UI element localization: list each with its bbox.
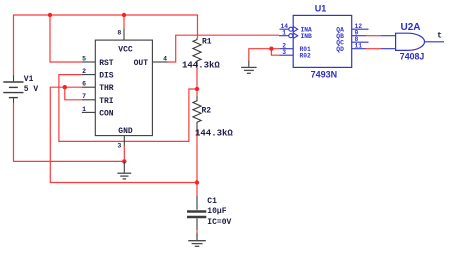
U1 inside labels bbox=[300, 26, 345, 59]
svg-text:R02: R02 bbox=[300, 52, 312, 59]
svg-text:DIS: DIS bbox=[99, 72, 114, 81]
capacitor C1 bbox=[187, 195, 206, 239]
svg-text:3: 3 bbox=[282, 49, 286, 56]
wire DIS to R1/R2 junction bbox=[59, 75, 197, 142]
svg-text:RST: RST bbox=[99, 59, 114, 68]
resistor R2 bbox=[193, 97, 201, 132]
svg-text:TRI: TRI bbox=[99, 97, 114, 106]
wire R1 bottom bbox=[196, 62, 198, 89]
svg-text:6: 6 bbox=[82, 81, 86, 88]
555 inside labels bbox=[99, 45, 148, 136]
junction THR/TRI bbox=[63, 85, 67, 89]
junction rail-VCC pin bbox=[122, 13, 126, 17]
R2 labels bbox=[195, 107, 233, 139]
svg-text:144.3kΩ: 144.3kΩ bbox=[182, 60, 220, 70]
R1 labels bbox=[182, 38, 220, 71]
pin R02 stub bbox=[280, 54, 294, 56]
U1 pin numbers bbox=[280, 23, 362, 56]
op-amp-box 555 timer U? body bbox=[95, 40, 152, 136]
svg-text:144.3kΩ: 144.3kΩ bbox=[195, 128, 233, 138]
svg-text:2: 2 bbox=[82, 68, 86, 75]
battery labels V1 5V bbox=[24, 75, 39, 94]
wire TRI branch bbox=[65, 87, 82, 100]
svg-text:7493N: 7493N bbox=[311, 70, 338, 80]
ground under 555/battery bbox=[117, 161, 131, 179]
wire R02 jog bbox=[271, 49, 279, 56]
pin QC stub bbox=[352, 41, 369, 43]
pin QD stub bbox=[352, 48, 367, 50]
junction R1/R2/DIS bbox=[195, 87, 199, 91]
svg-text:1: 1 bbox=[282, 29, 286, 36]
pin R01 stub bbox=[280, 48, 294, 50]
wire U1 R01 R02 to ground bbox=[249, 49, 280, 61]
wire C1 bottom red bit bbox=[196, 230, 198, 233]
junction rail-battery/RST bbox=[48, 13, 52, 17]
IC U1 7493N body bbox=[293, 15, 352, 67]
junction C1/R2/THR bbox=[195, 180, 199, 184]
svg-text:5: 5 bbox=[82, 55, 86, 62]
wire R2 top bbox=[196, 89, 198, 97]
svg-text:1: 1 bbox=[82, 106, 86, 113]
wire GND pin to ground bbox=[123, 146, 125, 162]
svg-text:OUT: OUT bbox=[134, 59, 149, 68]
wire VCC pin 8 drop bbox=[123, 15, 125, 28]
svg-text:3: 3 bbox=[117, 143, 121, 150]
svg-text:5 V: 5 V bbox=[24, 85, 39, 94]
pin QB stub bbox=[352, 35, 367, 37]
AND gate U2A body bbox=[396, 33, 425, 50]
U2A output wire bbox=[425, 41, 445, 43]
pin QA stub bbox=[352, 28, 369, 30]
svg-text:R1: R1 bbox=[202, 38, 212, 47]
svg-text:R2: R2 bbox=[202, 107, 212, 116]
svg-text:GND: GND bbox=[118, 127, 133, 136]
svg-text:CON: CON bbox=[99, 109, 114, 118]
svg-text:4: 4 bbox=[163, 55, 167, 62]
svg-text:THR: THR bbox=[99, 84, 114, 93]
svg-text:C1: C1 bbox=[207, 197, 217, 206]
svg-text:8: 8 bbox=[117, 29, 121, 36]
U1 pin stubs bbox=[279, 27, 369, 56]
svg-text:10µF: 10µF bbox=[207, 207, 226, 216]
pin INA stub bbox=[280, 28, 289, 30]
svg-text:V1: V1 bbox=[24, 75, 34, 84]
svg-text:7408J: 7408J bbox=[400, 52, 425, 62]
junction GND/battery/ground bbox=[122, 159, 126, 163]
ground under C1 bbox=[188, 233, 206, 246]
wire C1 top bbox=[196, 183, 198, 196]
ground under U1 resets bbox=[241, 61, 257, 74]
svg-text:VCC: VCC bbox=[118, 45, 133, 54]
555 pin numbers bbox=[82, 29, 167, 149]
svg-text:U2A: U2A bbox=[401, 22, 421, 33]
battery V1 bbox=[3, 75, 23, 103]
wire QD to U2A input bbox=[366, 48, 381, 50]
555 pin stubs bbox=[82, 28, 168, 145]
wire VCC rail top bbox=[14, 15, 198, 76]
svg-text:QD: QD bbox=[336, 46, 344, 53]
pin INB stub bbox=[279, 35, 289, 37]
wire OUT to U1 INB bbox=[168, 35, 279, 62]
wire QB to U2A input bbox=[366, 35, 381, 37]
resistor R1 bbox=[193, 38, 201, 67]
wire R2 bottom to C1 bbox=[196, 130, 198, 183]
svg-text:7: 7 bbox=[82, 93, 86, 100]
junction R01/R02 bbox=[269, 47, 273, 51]
svg-text:11: 11 bbox=[355, 42, 363, 49]
svg-text:INB: INB bbox=[301, 33, 313, 40]
C1 labels bbox=[207, 197, 231, 227]
svg-text:U1: U1 bbox=[315, 3, 327, 13]
wire RST to VCC rail bbox=[50, 15, 82, 62]
wire THR node to C1 top bbox=[50, 87, 197, 182]
wire battery minus to ground bbox=[14, 103, 125, 161]
svg-text:IC=0V: IC=0V bbox=[207, 218, 231, 227]
svg-text:t: t bbox=[437, 31, 442, 41]
AND gate U2A blue stubs bbox=[381, 36, 444, 49]
